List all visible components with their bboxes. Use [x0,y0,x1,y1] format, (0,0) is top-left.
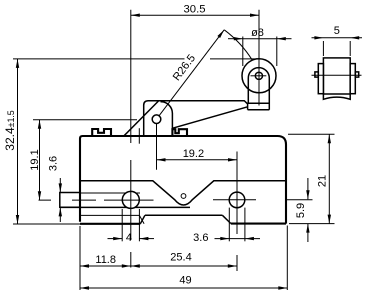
svg-text:21: 21 [316,175,328,187]
svg-text:5.9: 5.9 [295,203,307,218]
svg-text:19.1: 19.1 [29,149,41,170]
svg-text:49: 49 [179,274,191,286]
svg-text:32.4±1.5: 32.4±1.5 [3,110,17,151]
svg-text:11.8: 11.8 [95,254,116,266]
svg-text:30.5: 30.5 [184,4,206,16]
svg-text:4: 4 [126,232,132,244]
svg-text:3.6: 3.6 [193,232,208,244]
svg-text:25.4: 25.4 [170,252,191,264]
svg-text:ø8: ø8 [251,27,264,39]
svg-text:5: 5 [334,25,340,37]
svg-text:19.2: 19.2 [183,148,204,160]
svg-text:3.6: 3.6 [48,156,60,171]
